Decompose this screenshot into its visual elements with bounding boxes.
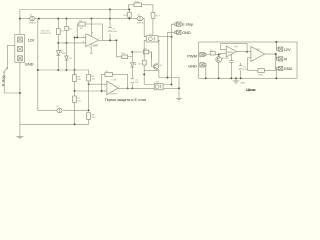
wire 12V link	[276, 42, 278, 49]
wire pin6 row	[58, 42, 86, 44]
svg-text:1M: 1M	[80, 28, 83, 30]
optocoupler OK1	[144, 34, 160, 42]
pin GND top	[175, 30, 181, 34]
node rail-left	[19, 18, 21, 20]
resistor R12	[143, 60, 147, 65]
wire pin4	[90, 44, 93, 54]
op-amp OPA	[226, 46, 239, 57]
wire gnd drop	[168, 32, 175, 77]
resistor R5	[74, 70, 76, 75]
wire VI link	[276, 54, 278, 59]
svg-text:GND: GND	[25, 61, 34, 66]
svg-text:LM358: LM358	[227, 52, 234, 54]
pin PWM	[200, 52, 206, 56]
svg-text:E stop: E stop	[182, 22, 193, 27]
led D2	[57, 43, 59, 70]
svg-text:GND: GND	[182, 30, 191, 35]
pin E stop	[175, 22, 181, 26]
svg-text:IC1A: IC1A	[112, 79, 117, 82]
transistor T2	[216, 57, 229, 63]
pin GND3	[277, 66, 283, 70]
wire T1 base	[149, 52, 154, 67]
feedback opa	[221, 44, 247, 52]
wire 12V rail B	[20, 19, 146, 37]
resistor Ra	[122, 55, 128, 59]
op-amp IC1B	[83, 32, 102, 48]
svg-text:1N4007: 1N4007	[29, 22, 37, 24]
wire opb out	[265, 53, 277, 55]
svg-text:GND: GND	[241, 82, 246, 84]
wire gnd drop left	[19, 63, 21, 137]
svg-text:12V: 12V	[284, 47, 291, 52]
svg-text:GND: GND	[284, 66, 293, 71]
wire collector column	[158, 40, 179, 98]
diode D6	[66, 43, 68, 70]
resistor R2 column	[66, 19, 68, 43]
svg-text:GND: GND	[93, 46, 98, 48]
svg-text:BC557: BC557	[222, 58, 229, 60]
wire OK1 right top	[160, 36, 172, 38]
pin GND2	[200, 63, 206, 67]
capacitor C2	[109, 10, 111, 41]
wire R12 column to OK2	[144, 40, 151, 84]
resistor R17	[151, 13, 155, 19]
svg-text:PWM: PWM	[187, 53, 197, 58]
wire top feed A	[20, 5, 153, 35]
optocoupler OK2	[151, 82, 166, 90]
resistor R1p	[206, 53, 226, 54]
feedback R9	[102, 74, 128, 91]
svg-text:LED: LED	[62, 53, 67, 55]
svg-text:Шим: Шим	[246, 87, 255, 92]
ground symbol right	[233, 78, 240, 83]
svg-text:NTC: NTC	[92, 117, 97, 119]
led D4 column	[131, 52, 133, 88]
op-amp IC1A	[104, 79, 121, 96]
node pin5 feedback	[76, 36, 78, 38]
thermistor R8	[87, 113, 91, 120]
resistor R6	[88, 73, 90, 75]
wire opa out	[237, 51, 251, 53]
wire emitter branch	[144, 69, 159, 71]
pin X1-2	[17, 47, 22, 52]
op-amp OPB	[251, 47, 265, 62]
wire bottom	[20, 119, 89, 124]
wire pin8	[91, 19, 93, 37]
wire pin5 row	[75, 37, 86, 124]
svg-text:Термо защита и Е стоп: Термо защита и Е стоп	[105, 97, 147, 102]
pin X1-3	[17, 56, 22, 61]
diode D1	[29, 14, 37, 24]
transistor T1	[153, 63, 163, 70]
switch S1 e-stop	[3, 46, 20, 93]
wire output2 row	[118, 87, 151, 89]
wire GND3 link	[276, 69, 278, 79]
resistor R16	[134, 3, 142, 7]
capacitor C4	[230, 55, 232, 79]
ground symbol mid	[176, 98, 182, 101]
diode D3	[137, 14, 145, 24]
node estop join	[19, 92, 21, 94]
wire OK2 right bottom gnd	[166, 87, 179, 89]
resistor Rb	[132, 52, 151, 59]
svg-text:BZX55C12: BZX55C12	[41, 33, 52, 35]
wire q1 row	[38, 109, 89, 111]
svg-text:GND: GND	[188, 64, 197, 69]
box right block	[199, 42, 297, 78]
capacitor C3	[131, 79, 140, 84]
resistor R7	[73, 96, 77, 102]
feedback R4	[77, 24, 102, 40]
ground symbol left	[16, 136, 23, 138]
pin VI	[277, 57, 283, 61]
svg-text:VI: VI	[284, 57, 288, 62]
wire estop drop	[166, 24, 175, 84]
connector X1 body	[15, 35, 25, 63]
capacitor C5	[240, 63, 242, 79]
wire rail70	[38, 19, 89, 111]
wire output1 row	[99, 40, 133, 57]
wire pin2 row	[75, 90, 107, 92]
feedback opb R10b	[248, 54, 276, 70]
svg-text:R10b: R10b	[258, 74, 264, 76]
wire T2	[218, 55, 220, 79]
diode D7 q1	[57, 106, 63, 113]
zener ZD1 column	[57, 19, 59, 43]
svg-text:E stop: E stop	[0, 75, 5, 86]
wire gnd2 drop	[205, 65, 207, 79]
resistor R15	[128, 10, 130, 19]
pin X1-1	[17, 37, 22, 42]
wire pin3 row	[89, 83, 107, 85]
svg-text:1N4148: 1N4148	[137, 22, 145, 24]
svg-text:12V: 12V	[28, 37, 35, 42]
node pin6 row	[57, 42, 59, 44]
svg-text:LM393: LM393	[111, 94, 118, 96]
pin 12V out	[277, 47, 283, 51]
node rail taps	[38, 18, 40, 20]
node rail70	[37, 69, 39, 71]
